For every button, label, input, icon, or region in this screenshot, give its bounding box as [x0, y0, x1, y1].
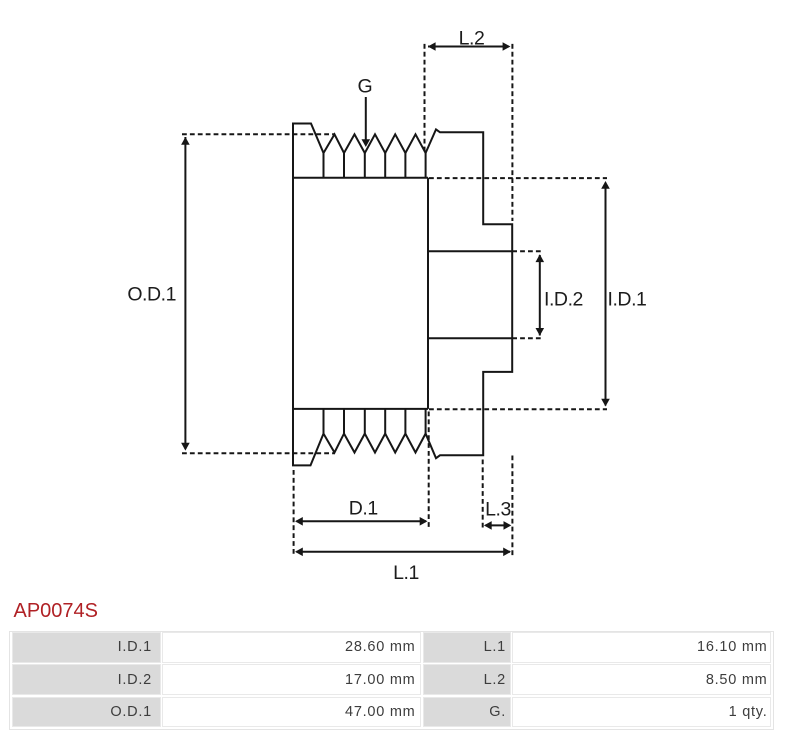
svg-text:L.1: L.1 — [393, 562, 419, 584]
svg-text:I.D.1: I.D.1 — [608, 289, 647, 311]
svg-text:D.1: D.1 — [349, 497, 378, 519]
svg-text:I.D.2: I.D.2 — [544, 289, 583, 311]
svg-text:G: G — [357, 76, 372, 98]
svg-text:L.2: L.2 — [459, 27, 485, 49]
svg-text:L.3: L.3 — [485, 498, 511, 520]
svg-text:O.D.1: O.D.1 — [127, 284, 176, 306]
